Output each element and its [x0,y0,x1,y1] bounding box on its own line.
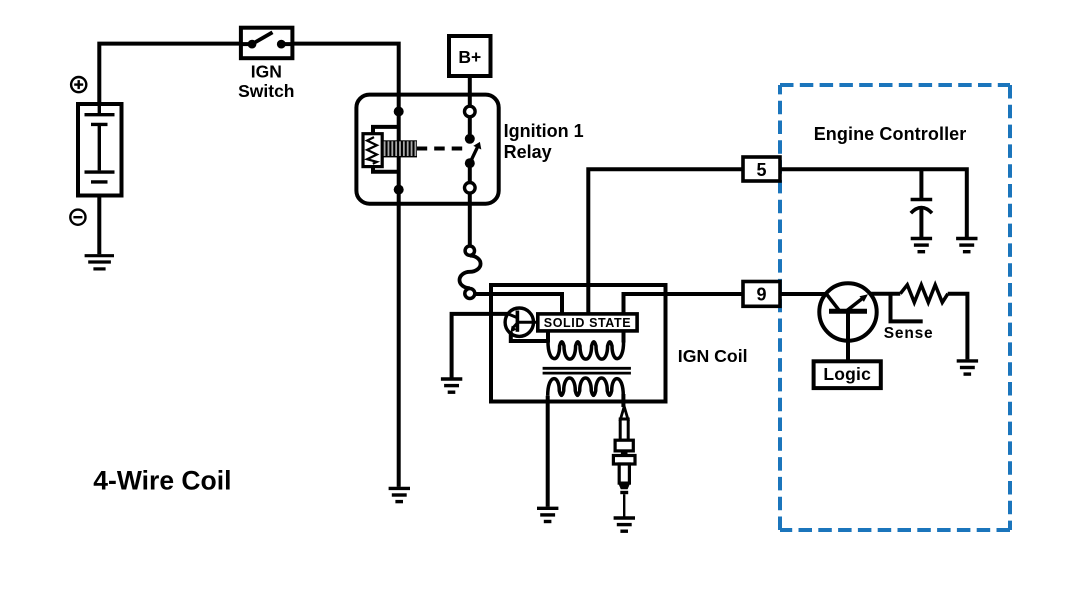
svg-text:4-Wire Coil: 4-Wire Coil [93,465,231,495]
svg-text:5: 5 [756,160,766,180]
svg-text:Engine Controller: Engine Controller [814,124,967,144]
svg-text:SOLID STATE: SOLID STATE [544,316,631,330]
svg-text:IGN: IGN [251,62,282,82]
svg-text:Switch: Switch [238,81,294,101]
svg-text:Ignition 1: Ignition 1 [504,121,584,141]
svg-text:Relay: Relay [504,142,552,162]
svg-text:Sense: Sense [884,325,934,342]
svg-text:B+: B+ [458,47,481,67]
svg-text:IGN Coil: IGN Coil [678,346,748,366]
svg-text:9: 9 [756,285,766,305]
svg-text:Logic: Logic [823,364,871,384]
